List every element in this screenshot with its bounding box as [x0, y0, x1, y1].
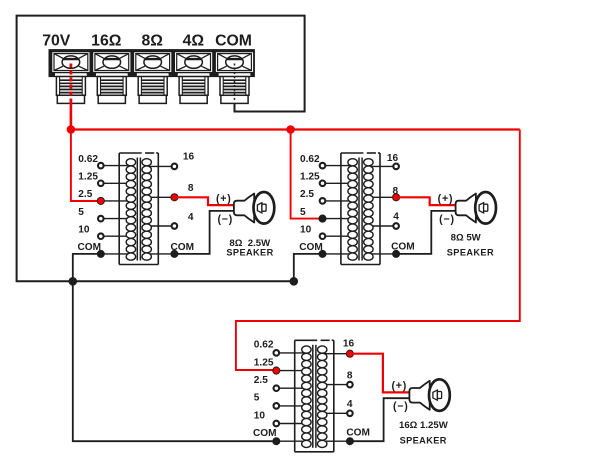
T2 secondary tap 8 terminal	[393, 194, 400, 201]
svg-text:4: 4	[347, 399, 353, 410]
svg-text:0.62: 0.62	[78, 154, 98, 165]
T1 secondary tap 4 terminal	[172, 223, 178, 229]
wire: T3 16-ohm tap to speaker LS3 (+) (red)	[350, 354, 410, 393]
svg-text:0.62: 0.62	[300, 154, 320, 165]
T2 secondary tap leads	[368, 166, 393, 254]
svg-text:0.62: 0.62	[254, 340, 274, 351]
svg-text:8: 8	[188, 183, 194, 194]
T2 primary tap 1.25 terminal	[320, 181, 326, 187]
svg-text:(+): (+)	[438, 193, 454, 205]
node: red bus junction at 70V drop	[67, 126, 75, 134]
svg-text:2.5: 2.5	[78, 189, 92, 200]
wire: ground bus drop to T3 primary COM	[73, 281, 276, 441]
svg-text:4: 4	[188, 212, 194, 223]
T2 core laminations	[359, 158, 362, 261]
terminal 4Ω	[174, 52, 213, 104]
svg-text:SPEAKER: SPEAKER	[400, 435, 447, 445]
T2 primary tap 10 terminal	[320, 233, 326, 239]
T2 primary tap leads	[326, 166, 353, 254]
wire: amplifier COM return loop (terminal block COM down, right, up, across top, down left side to ground bus)	[17, 16, 305, 282]
svg-text:5: 5	[78, 207, 84, 218]
node: ground bus junction at T1/T3 drop	[69, 278, 77, 286]
svg-text:10: 10	[78, 224, 90, 235]
T1 primary tap COM terminal	[97, 250, 104, 257]
T2 primary tap 0.62 terminal	[320, 163, 326, 169]
svg-text:COM: COM	[299, 242, 323, 253]
svg-text:8Ω: 8Ω	[141, 32, 163, 49]
svg-text:COM: COM	[171, 242, 195, 253]
T3 primary tap 1.25 terminal	[273, 367, 280, 374]
T2 secondary winding	[364, 159, 373, 261]
T1 secondary winding	[142, 159, 151, 261]
svg-text:70V: 70V	[42, 32, 71, 49]
wire: T1 primary COM to ground bus	[73, 254, 101, 281]
wire: red bus right leg down and across to T3 1.25 tap	[236, 130, 520, 371]
T2 primary tap 5 terminal	[319, 215, 326, 222]
svg-text:(+): (+)	[216, 193, 232, 205]
svg-text:4: 4	[393, 211, 399, 222]
svg-text:(+): (+)	[391, 380, 407, 392]
T3 secondary tap COM terminal	[346, 438, 353, 445]
svg-text:16: 16	[343, 338, 355, 349]
T3 secondary tap 4 terminal	[347, 411, 353, 417]
wire: T1 8-ohm tap to speaker LS1 (+) (red)	[174, 197, 234, 205]
terminal COM	[215, 52, 254, 104]
amplifier output terminal block TB1	[42, 32, 520, 451]
T3 secondary tap 16 terminal	[346, 350, 353, 357]
svg-text:SPEAKER: SPEAKER	[447, 247, 494, 257]
wire: speaker LS1 (-) return to T1 secondary COM	[174, 211, 234, 254]
T3 core laminations	[313, 345, 316, 448]
svg-text:5: 5	[300, 207, 306, 218]
wire: 70V red bus (horizontal)	[71, 128, 520, 130]
T1 primary tap 2.5 terminal	[97, 197, 104, 204]
wire: 70V feed drop from terminal to red bus and T1 2.5W tap	[70, 101, 73, 130]
svg-text:(−): (−)	[217, 213, 233, 225]
transformer T1	[78, 152, 195, 265]
svg-text:COM: COM	[215, 32, 252, 49]
svg-text:COM: COM	[391, 242, 415, 253]
wire: speaker LS3 (-) return to T3 secondary COM	[350, 398, 410, 441]
T1 primary tap 1.25 terminal	[98, 181, 104, 187]
svg-text:16: 16	[183, 152, 195, 163]
T1 primary tap 0.62 terminal	[98, 163, 104, 169]
T1 primary winding	[126, 159, 135, 261]
transformer T2	[299, 153, 414, 265]
svg-text:(−): (−)	[393, 401, 409, 413]
svg-text:5: 5	[254, 393, 260, 404]
T1 primary tap 10 terminal	[98, 233, 104, 239]
T3 primary tap 5 terminal	[274, 403, 280, 409]
svg-text:SPEAKER: SPEAKER	[226, 247, 273, 257]
terminal strip body	[49, 50, 254, 77]
T2 core box	[341, 153, 380, 265]
terminal 70V	[52, 52, 91, 104]
svg-text:8Ω 5W: 8Ω 5W	[451, 232, 482, 243]
T1 secondary tap leads	[146, 166, 171, 254]
speaker LS2 horn	[456, 192, 496, 224]
wire: T2 8-ohm tap to speaker LS2 (+) (red)	[396, 197, 456, 205]
T2 primary tap COM terminal	[319, 250, 326, 257]
svg-text:8: 8	[347, 371, 353, 382]
T1 secondary tap 16 terminal	[172, 164, 178, 170]
wire: 70V hot lead inside terminal (red dashed)	[70, 64, 73, 102]
T3 primary tap COM terminal	[273, 438, 280, 445]
svg-text:1.25: 1.25	[254, 357, 274, 368]
wire: drop from red bus to T2 5 tap	[291, 130, 323, 219]
svg-text:16: 16	[387, 153, 399, 164]
T3 primary tap 2.5 terminal	[274, 385, 280, 391]
svg-text:(−): (−)	[439, 213, 455, 225]
svg-text:10: 10	[254, 410, 266, 421]
svg-text:10: 10	[300, 224, 312, 235]
T3 primary tap 0.62 terminal	[274, 350, 280, 356]
T3 core box	[295, 340, 334, 452]
svg-text:16Ω: 16Ω	[91, 32, 122, 49]
svg-text:4Ω: 4Ω	[183, 32, 205, 49]
wire: COM lead inside terminal (dashed)	[234, 64, 236, 102]
T2 secondary tap COM terminal	[393, 250, 400, 257]
transformer T3	[253, 338, 370, 451]
terminal 16Ω	[92, 52, 131, 104]
speaker LS3 horn	[409, 379, 449, 411]
T1 secondary tap 8 terminal	[171, 194, 178, 201]
svg-text:COM: COM	[253, 428, 277, 439]
T3 primary winding	[302, 346, 311, 448]
node: red bus junction at T2 drop	[287, 126, 295, 134]
T3 secondary tap 8 terminal	[347, 382, 353, 388]
T3 primary tap leads	[280, 353, 307, 441]
T1 secondary tap COM terminal	[171, 250, 178, 257]
svg-text:1.25: 1.25	[78, 172, 98, 183]
T2 primary winding	[348, 159, 357, 261]
T2 primary tap 2.5 terminal	[320, 198, 326, 204]
T3 primary tap 10 terminal	[274, 421, 280, 427]
T1 primary tap leads	[104, 166, 131, 254]
T1 core box	[119, 153, 158, 265]
T3 secondary tap leads	[322, 354, 347, 442]
T1 primary tap 5 terminal	[98, 216, 104, 222]
svg-text:2.5: 2.5	[300, 189, 314, 200]
svg-text:1.25: 1.25	[300, 172, 320, 183]
speaker LS1 horn	[234, 192, 274, 224]
svg-text:COM: COM	[78, 242, 102, 253]
wire: T2 primary COM to ground bus	[294, 254, 323, 281]
T3 secondary winding	[318, 346, 327, 448]
svg-text:COM: COM	[346, 428, 370, 439]
svg-text:8: 8	[393, 186, 399, 197]
node: ground bus junction at T2 drop	[290, 278, 298, 286]
svg-text:16Ω 1.25W: 16Ω 1.25W	[399, 420, 449, 431]
T1 core laminations	[137, 158, 140, 261]
svg-text:2.5: 2.5	[254, 375, 268, 386]
terminal 8Ω	[133, 52, 172, 104]
wire: drop to T1 2.5 tap	[71, 130, 101, 202]
T2 secondary tap 16 terminal	[393, 164, 399, 170]
wire: speaker LS2 (-) return to T2 secondary COM	[396, 211, 456, 254]
T2 secondary tap 4 terminal	[393, 223, 399, 229]
